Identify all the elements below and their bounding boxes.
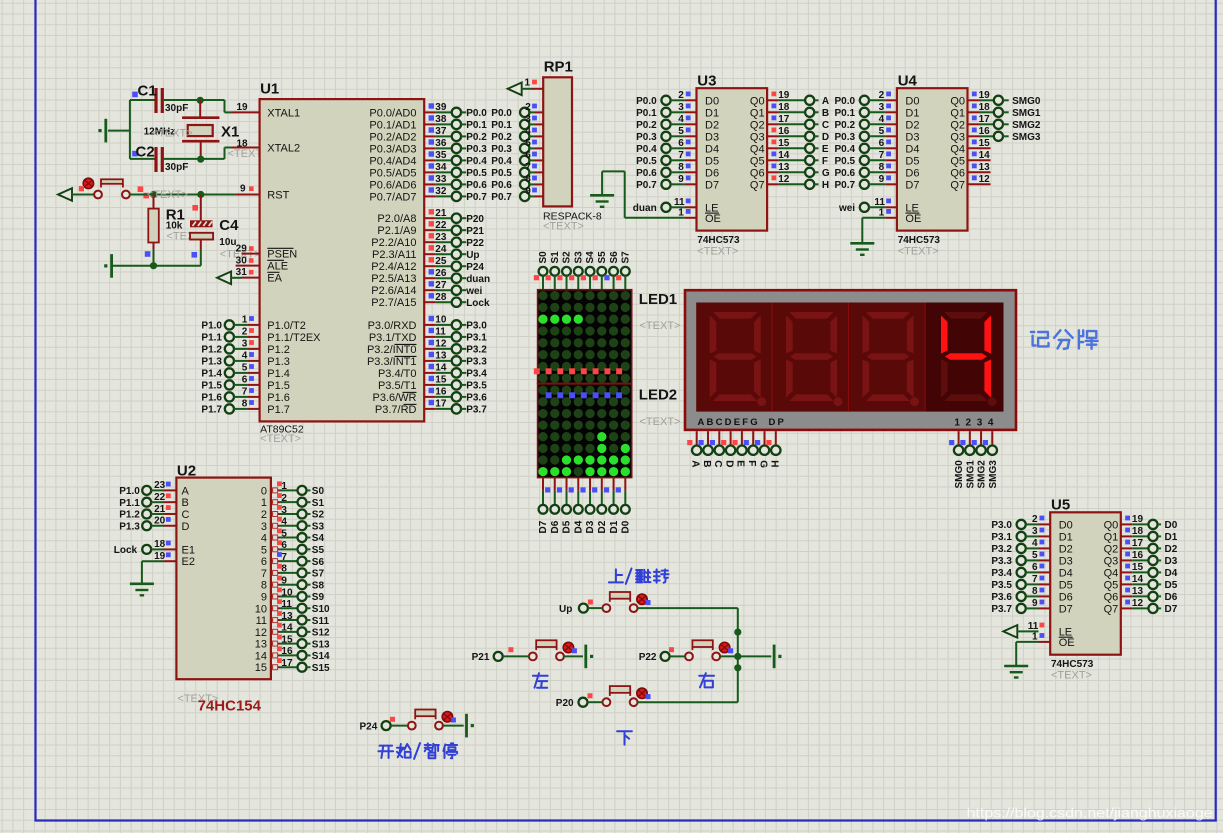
svg-text:Q0: Q0	[750, 95, 765, 107]
svg-text:11: 11	[281, 599, 292, 610]
svg-text:29: 29	[236, 244, 248, 255]
svg-text:5: 5	[242, 363, 248, 374]
svg-text:P1.5: P1.5	[267, 380, 290, 392]
svg-text:D3: D3	[585, 520, 596, 533]
svg-text:D3: D3	[705, 131, 719, 143]
svg-text:<TEXT>: <TEXT>	[152, 128, 193, 140]
svg-text:Q7: Q7	[750, 179, 765, 191]
svg-text:S10: S10	[312, 604, 330, 615]
svg-text:P22: P22	[639, 652, 657, 663]
svg-text:F: F	[746, 460, 757, 466]
svg-text:<TEXT>: <TEXT>	[640, 416, 681, 428]
svg-text:6: 6	[281, 540, 287, 551]
svg-text:P0.6: P0.6	[636, 168, 657, 179]
svg-text:P2.0/A8: P2.0/A8	[377, 213, 416, 225]
svg-text:11: 11	[874, 197, 885, 208]
svg-text:P0.4: P0.4	[466, 156, 487, 167]
svg-text:D5: D5	[905, 155, 919, 167]
svg-text:S5: S5	[312, 545, 325, 556]
svg-text:1: 1	[524, 78, 530, 89]
svg-text:D7: D7	[905, 179, 919, 191]
svg-text:D1: D1	[905, 107, 919, 119]
svg-text:P2.4/A12: P2.4/A12	[371, 261, 416, 273]
svg-text:PSEN: PSEN	[267, 249, 297, 261]
svg-text:20: 20	[154, 516, 166, 527]
svg-text:P1.2: P1.2	[201, 345, 222, 356]
svg-text:1: 1	[954, 417, 960, 428]
svg-text:S2: S2	[562, 251, 573, 264]
svg-text:2: 2	[1032, 514, 1038, 525]
svg-text:17: 17	[281, 658, 293, 669]
svg-text:P2.1/A9: P2.1/A9	[377, 225, 416, 237]
svg-text:14: 14	[255, 650, 267, 662]
svg-text:duan: duan	[633, 203, 657, 214]
svg-text:P24: P24	[360, 721, 378, 732]
svg-text:P0.2: P0.2	[636, 120, 657, 131]
svg-text:Q4: Q4	[1104, 567, 1119, 579]
svg-text:6: 6	[678, 138, 684, 149]
svg-text:D0: D0	[905, 95, 919, 107]
svg-text:https://blog.csdn.net/jianghux: https://blog.csdn.net/jianghuxiaoge	[967, 805, 1213, 821]
svg-text:S3: S3	[312, 521, 325, 532]
svg-text:F: F	[822, 156, 828, 167]
svg-text:S9: S9	[312, 592, 325, 603]
svg-text:OE: OE	[905, 213, 921, 225]
svg-text:S8: S8	[312, 580, 325, 591]
svg-text:C1: C1	[138, 83, 157, 100]
svg-text:G: G	[757, 460, 768, 468]
svg-text:C: C	[822, 120, 829, 131]
svg-text:P1.4: P1.4	[201, 369, 222, 380]
svg-text:Q3: Q3	[750, 131, 765, 143]
svg-text:D6: D6	[550, 520, 561, 533]
svg-text:wei: wei	[465, 286, 482, 297]
svg-text:P3.2: P3.2	[991, 544, 1012, 555]
svg-text:S7: S7	[621, 251, 632, 264]
svg-text:SMG2: SMG2	[977, 460, 988, 489]
svg-text:16: 16	[281, 646, 293, 657]
svg-text:S4: S4	[312, 533, 325, 544]
svg-text:S6: S6	[609, 251, 620, 264]
svg-text:4: 4	[525, 126, 531, 137]
svg-text:P0.1: P0.1	[636, 108, 657, 119]
svg-text:U1: U1	[260, 81, 279, 98]
svg-text:D1: D1	[1059, 531, 1073, 543]
svg-text:15: 15	[281, 634, 293, 645]
svg-text:9: 9	[281, 575, 287, 586]
svg-text:8: 8	[242, 399, 248, 410]
svg-text:P3.3: P3.3	[991, 556, 1012, 567]
svg-text:P3.5: P3.5	[466, 381, 487, 392]
svg-text:3: 3	[678, 102, 684, 113]
svg-text:7: 7	[1032, 574, 1038, 585]
svg-text:P0.5: P0.5	[835, 156, 856, 167]
svg-text:P21: P21	[466, 226, 484, 237]
svg-text:5: 5	[281, 528, 287, 539]
svg-text:D6: D6	[1059, 591, 1073, 603]
svg-text:S0: S0	[538, 251, 549, 264]
svg-text:D1: D1	[609, 520, 620, 533]
svg-text:<TEXT>: <TEXT>	[898, 245, 939, 257]
svg-text:D1: D1	[705, 107, 719, 119]
svg-text:E: E	[822, 144, 829, 155]
svg-text:RST: RST	[267, 190, 289, 202]
svg-text:D7: D7	[538, 520, 549, 533]
svg-text:D6: D6	[905, 167, 919, 179]
svg-text:3: 3	[281, 505, 287, 516]
svg-text:30pF: 30pF	[165, 103, 188, 114]
svg-text:30: 30	[236, 255, 248, 266]
svg-text:duan: duan	[466, 274, 490, 285]
svg-text:P1.0/T2: P1.0/T2	[267, 320, 306, 332]
svg-text:B: B	[182, 497, 189, 509]
svg-text:Q1: Q1	[750, 107, 765, 119]
svg-text:2: 2	[242, 327, 248, 338]
svg-text:wei: wei	[838, 203, 855, 214]
svg-text:1: 1	[242, 315, 248, 326]
svg-text:LED1: LED1	[639, 291, 677, 308]
svg-text:S6: S6	[312, 557, 325, 568]
svg-text:P22: P22	[466, 238, 484, 249]
svg-text:Q5: Q5	[950, 155, 965, 167]
svg-text:Q4: Q4	[750, 143, 765, 155]
svg-text:C: C	[182, 509, 190, 521]
svg-text:SMG1: SMG1	[965, 460, 976, 489]
svg-text:4: 4	[879, 114, 885, 125]
svg-text:<TEXT>: <TEXT>	[543, 221, 584, 233]
svg-text:P3.6: P3.6	[466, 393, 487, 404]
svg-text:2: 2	[879, 90, 885, 101]
svg-text:30pF: 30pF	[165, 162, 188, 173]
svg-text:P0.6: P0.6	[466, 180, 487, 191]
svg-text:7: 7	[242, 387, 248, 398]
svg-text:9: 9	[525, 186, 531, 197]
svg-text:D: D	[182, 521, 190, 533]
svg-text:Q6: Q6	[950, 167, 965, 179]
svg-text:4: 4	[261, 533, 267, 545]
svg-text:Up: Up	[466, 250, 479, 261]
svg-text:SMG0: SMG0	[1012, 96, 1041, 107]
svg-text:P1.6: P1.6	[201, 393, 222, 404]
svg-text:S2: S2	[312, 510, 325, 521]
svg-text:P0.1: P0.1	[835, 108, 856, 119]
svg-text:P2.3/A11: P2.3/A11	[372, 249, 416, 261]
svg-text:P20: P20	[556, 698, 574, 709]
svg-text:14: 14	[281, 623, 293, 634]
svg-text:C4: C4	[219, 217, 239, 234]
svg-text:2: 2	[525, 102, 531, 113]
svg-text:P0.1: P0.1	[491, 120, 512, 131]
svg-text:P0.0/AD0: P0.0/AD0	[369, 107, 416, 119]
svg-text:P1.3: P1.3	[201, 357, 222, 368]
svg-text:E1: E1	[182, 544, 195, 556]
svg-text:P3.6/WR: P3.6/WR	[372, 392, 416, 404]
svg-text:0: 0	[261, 485, 267, 497]
svg-text:Q3: Q3	[950, 131, 965, 143]
svg-text:5: 5	[879, 126, 885, 137]
svg-text:SMG3: SMG3	[988, 460, 999, 489]
svg-text:P0.5: P0.5	[466, 168, 487, 179]
svg-text:2: 2	[966, 417, 972, 428]
svg-text:P2.7/A15: P2.7/A15	[371, 297, 416, 309]
svg-text:D5: D5	[1059, 579, 1073, 591]
svg-text:Q4: Q4	[950, 143, 965, 155]
svg-text:P3.4/T0: P3.4/T0	[378, 368, 417, 380]
svg-text:Q2: Q2	[1104, 543, 1119, 555]
svg-text:5: 5	[678, 126, 684, 137]
svg-text:P0.3: P0.3	[636, 132, 657, 143]
svg-text:D1: D1	[1165, 532, 1178, 543]
svg-text:Q1: Q1	[1104, 531, 1119, 543]
svg-text:P0.4/AD4: P0.4/AD4	[369, 155, 416, 167]
svg-text:P3.7: P3.7	[466, 405, 487, 416]
svg-text:P2.2/A10: P2.2/A10	[371, 237, 416, 249]
svg-text:3: 3	[879, 102, 885, 113]
svg-text:C2: C2	[136, 144, 155, 161]
svg-text:P0.5: P0.5	[636, 156, 657, 167]
svg-text:9: 9	[261, 591, 267, 603]
svg-text:P2.5/A13: P2.5/A13	[371, 273, 416, 285]
svg-text:C: C	[712, 460, 723, 467]
svg-text:5: 5	[525, 138, 531, 149]
svg-text:S11: S11	[312, 616, 330, 627]
svg-text:6: 6	[1032, 562, 1038, 573]
svg-text:Q7: Q7	[1104, 603, 1119, 615]
svg-text:22: 22	[154, 492, 166, 503]
svg-text:P3.1: P3.1	[466, 333, 487, 344]
svg-text:D: D	[822, 132, 829, 143]
svg-text:8: 8	[281, 564, 287, 575]
svg-text:S14: S14	[312, 651, 330, 662]
svg-text:S7: S7	[312, 569, 325, 580]
svg-text:3: 3	[1032, 526, 1038, 537]
svg-text:P1.1: P1.1	[201, 333, 222, 344]
svg-text:P0.7: P0.7	[835, 180, 856, 191]
svg-text:15: 15	[255, 662, 267, 674]
svg-text:D0: D0	[1165, 520, 1178, 531]
svg-text:P0.7: P0.7	[466, 192, 487, 203]
svg-text:P3.6: P3.6	[991, 592, 1012, 603]
svg-text:D5: D5	[562, 520, 573, 533]
svg-text:P0.5/AD5: P0.5/AD5	[369, 167, 416, 179]
svg-text:D7: D7	[1165, 604, 1178, 615]
svg-text:1: 1	[281, 481, 287, 492]
svg-text:P1.3: P1.3	[267, 356, 290, 368]
svg-text:D7: D7	[705, 179, 719, 191]
svg-text:7: 7	[678, 150, 684, 161]
svg-text:P1.1: P1.1	[119, 498, 140, 509]
svg-text:10: 10	[255, 603, 267, 615]
svg-text:Q2: Q2	[950, 119, 965, 131]
svg-text:P21: P21	[472, 652, 490, 663]
svg-text:LED2: LED2	[639, 387, 677, 404]
svg-text:D2: D2	[905, 119, 919, 131]
svg-text:1: 1	[261, 497, 267, 509]
svg-text:P1.2: P1.2	[267, 344, 290, 356]
svg-text:D2: D2	[705, 119, 719, 131]
svg-text:A: A	[690, 460, 701, 467]
svg-text:18: 18	[154, 539, 166, 550]
svg-text:D: D	[723, 460, 734, 467]
svg-text:Q6: Q6	[750, 167, 765, 179]
svg-text:P3.3/INT1: P3.3/INT1	[367, 356, 417, 368]
svg-text:D4: D4	[905, 143, 919, 155]
svg-text:P0.0: P0.0	[466, 108, 487, 119]
svg-text:6: 6	[879, 138, 885, 149]
svg-text:3: 3	[242, 339, 248, 350]
svg-text:7: 7	[525, 162, 531, 173]
svg-text:P0.5: P0.5	[491, 168, 512, 179]
svg-text:7: 7	[261, 568, 267, 580]
svg-text:OE: OE	[1059, 637, 1075, 649]
svg-text:P20: P20	[466, 214, 484, 225]
svg-text:S12: S12	[312, 628, 330, 639]
svg-text:P1.7: P1.7	[267, 404, 290, 416]
svg-text:P3.5/T1: P3.5/T1	[378, 380, 417, 392]
svg-text:P0.0: P0.0	[491, 108, 512, 119]
svg-text:P2.6/A14: P2.6/A14	[371, 285, 416, 297]
svg-text:P0.4: P0.4	[835, 144, 856, 155]
svg-text:19: 19	[237, 102, 249, 113]
svg-text:P3.7: P3.7	[991, 604, 1012, 615]
svg-text:P1.5: P1.5	[201, 381, 222, 392]
svg-text:SMG2: SMG2	[1012, 120, 1041, 131]
svg-text:E: E	[735, 460, 746, 467]
svg-text:D4: D4	[705, 143, 719, 155]
svg-text:P24: P24	[466, 262, 484, 273]
svg-text:4: 4	[678, 114, 684, 125]
svg-text:ABCDEFG: ABCDEFG	[698, 417, 760, 428]
svg-text:G: G	[822, 168, 830, 179]
svg-text:A: A	[822, 96, 829, 107]
svg-text:P3.1/TXD: P3.1/TXD	[369, 332, 417, 344]
svg-text:5: 5	[261, 544, 267, 556]
svg-text:P3.0/RXD: P3.0/RXD	[368, 320, 417, 332]
svg-text:P0.6: P0.6	[491, 180, 512, 191]
svg-text:P3.2: P3.2	[466, 345, 487, 356]
svg-text:S0: S0	[312, 486, 325, 497]
svg-text:P3.0: P3.0	[466, 321, 487, 332]
svg-text:5: 5	[1032, 550, 1038, 561]
svg-text:P3.4: P3.4	[466, 369, 487, 380]
svg-text:OE: OE	[705, 213, 721, 225]
svg-text:P0.3: P0.3	[835, 132, 856, 143]
svg-text:74HC154: 74HC154	[198, 698, 262, 715]
svg-text:D0: D0	[621, 520, 632, 533]
svg-text:9: 9	[240, 184, 246, 195]
svg-text:U4: U4	[898, 72, 918, 89]
svg-text:3: 3	[261, 521, 267, 533]
svg-text:S3: S3	[573, 251, 584, 264]
svg-text:P3.0: P3.0	[991, 520, 1012, 531]
svg-text:2: 2	[281, 493, 287, 504]
svg-text:P3.2/INT0: P3.2/INT0	[367, 344, 417, 356]
svg-text:B: B	[701, 460, 712, 467]
svg-text:<TEXT>: <TEXT>	[697, 245, 738, 257]
svg-text:Q7: Q7	[950, 179, 965, 191]
svg-text:3: 3	[977, 417, 983, 428]
svg-text:S13: S13	[312, 639, 330, 650]
svg-text:P1.6: P1.6	[267, 392, 290, 404]
svg-text:E2: E2	[182, 556, 195, 568]
svg-text:P3.3: P3.3	[466, 357, 487, 368]
svg-text:D3: D3	[905, 131, 919, 143]
svg-text:P0.7/AD7: P0.7/AD7	[369, 191, 416, 203]
svg-text:6: 6	[525, 150, 531, 161]
svg-text:2: 2	[678, 90, 684, 101]
svg-text:XTAL2: XTAL2	[267, 143, 300, 155]
svg-text:Q1: Q1	[950, 107, 965, 119]
svg-text:6: 6	[242, 375, 248, 386]
svg-text:31: 31	[236, 267, 248, 278]
svg-text:P1.3: P1.3	[119, 521, 140, 532]
svg-text:P0.2: P0.2	[835, 120, 856, 131]
svg-text:RP1: RP1	[544, 59, 573, 76]
svg-text:D7: D7	[1059, 603, 1073, 615]
svg-text:4: 4	[242, 351, 248, 362]
svg-text:P3.7/RD: P3.7/RD	[375, 404, 417, 416]
svg-text:8: 8	[678, 162, 684, 173]
svg-text:4: 4	[988, 417, 994, 428]
svg-text:Lock: Lock	[114, 545, 138, 556]
svg-text:2: 2	[261, 509, 267, 521]
svg-text:<TEXT>: <TEXT>	[640, 320, 681, 332]
svg-text:ALE: ALE	[267, 261, 288, 273]
svg-text:B: B	[822, 108, 829, 119]
svg-text:Q5: Q5	[750, 155, 765, 167]
svg-text:3: 3	[525, 114, 531, 125]
svg-text:Lock: Lock	[466, 298, 490, 309]
svg-text:P1.0: P1.0	[119, 486, 140, 497]
svg-text:8: 8	[879, 162, 885, 173]
svg-text:P0.3: P0.3	[491, 144, 512, 155]
svg-text:P0.7: P0.7	[491, 192, 512, 203]
svg-text:D4: D4	[573, 520, 584, 533]
svg-text:P0.4: P0.4	[491, 156, 512, 167]
svg-text:Q0: Q0	[950, 95, 965, 107]
svg-text:P1.1/T2EX: P1.1/T2EX	[267, 332, 321, 344]
svg-text:<TEXT>: <TEXT>	[1051, 669, 1092, 681]
svg-text:U5: U5	[1051, 497, 1070, 514]
svg-text:SMG1: SMG1	[1012, 108, 1041, 119]
svg-text:8: 8	[261, 580, 267, 592]
svg-text:P0.7: P0.7	[636, 180, 657, 191]
svg-text:P1.4: P1.4	[267, 368, 290, 380]
svg-text:P3.4: P3.4	[991, 568, 1012, 579]
svg-text:DP: DP	[769, 417, 787, 428]
svg-text:EA: EA	[267, 273, 282, 285]
svg-text:10: 10	[281, 587, 293, 598]
svg-text:13: 13	[255, 639, 267, 651]
svg-text:P0.2: P0.2	[466, 132, 487, 143]
svg-text:7: 7	[879, 150, 885, 161]
svg-text:P0.3: P0.3	[466, 144, 487, 155]
svg-text:D3: D3	[1059, 555, 1073, 567]
svg-text:8: 8	[525, 174, 531, 185]
svg-text:23: 23	[154, 480, 166, 491]
svg-text:4: 4	[1032, 538, 1038, 549]
svg-text:P1.2: P1.2	[119, 510, 140, 521]
svg-text:H: H	[822, 180, 829, 191]
svg-text:P0.1: P0.1	[466, 120, 487, 131]
svg-text:9: 9	[879, 174, 885, 185]
svg-text:Q2: Q2	[750, 119, 765, 131]
svg-text:D6: D6	[705, 167, 719, 179]
svg-text:9: 9	[1032, 598, 1038, 609]
svg-text:S5: S5	[597, 251, 608, 264]
svg-text:21: 21	[154, 504, 166, 515]
svg-text:XTAL1: XTAL1	[267, 107, 300, 119]
